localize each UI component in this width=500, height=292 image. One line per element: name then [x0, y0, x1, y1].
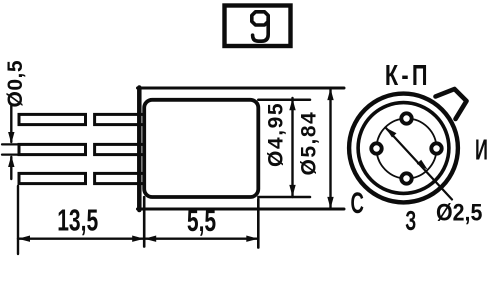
key tab — [436, 89, 467, 119]
extension line below can left edge — [143, 197, 146, 247]
lead 1 (top) segment a — [19, 114, 86, 124]
svg-text:К-П: К-П — [385, 60, 431, 92]
svg-text:Ø2,5: Ø2,5 — [436, 198, 483, 226]
lead 3 (bottom) segment a — [19, 173, 86, 183]
arrowhead down to middle lead — [8, 132, 14, 144]
digit 9 — [252, 12, 268, 41]
pin left (S) — [371, 143, 381, 153]
pin bottom (Z) — [401, 173, 411, 183]
figure number box — [225, 6, 291, 47]
arrowhead up 4,95 — [289, 99, 295, 111]
extension line below can right edge — [257, 199, 260, 248]
svg-text:Ø4,95: Ø4,95 — [265, 102, 288, 167]
flange bottom line / extension for diameter 5,84 — [138, 208, 345, 211]
arrowhead up to middle lead — [8, 155, 14, 167]
svg-text:5,5: 5,5 — [187, 203, 216, 238]
flange left edge — [137, 88, 142, 211]
diameter 0,5 dimension: extension lines — [2, 143, 20, 145]
svg-text:С: С — [350, 188, 364, 220]
arrowhead right 13,5 — [132, 236, 144, 242]
svg-text:13,5: 13,5 — [57, 203, 98, 238]
diameter 0,5 dimension line — [10, 106, 12, 142]
pin right (I) — [431, 143, 441, 153]
dimension line 13,5 / 5,5 — [18, 237, 258, 239]
can top extension for diameter 4,95 — [258, 99, 310, 102]
lead 2 (middle) segment b — [95, 144, 146, 154]
lead 3 (bottom) segment b — [95, 173, 146, 183]
svg-text:З: З — [405, 205, 416, 236]
lead 2 (middle) segment a — [19, 144, 86, 154]
rear view: middle circle — [358, 103, 449, 194]
svg-text:Ø0,5: Ø0,5 — [4, 60, 27, 108]
extension line at lead tips — [17, 186, 19, 254]
arrowhead left 5,5 — [144, 236, 156, 242]
pin top (K-P) — [401, 113, 411, 123]
svg-text:Ø5,84: Ø5,84 — [298, 111, 321, 176]
can body — [144, 100, 258, 197]
dimension line diameter 4,95 — [291, 98, 293, 197]
arrowhead left 13,5 — [18, 236, 30, 242]
arrowhead right 5,5 — [246, 236, 258, 242]
can bottom extension for diameter 4,95 — [258, 196, 310, 199]
arrowhead down-right 2,5 — [417, 160, 428, 170]
arrowhead up 5,84 — [327, 89, 333, 101]
leader line diameter 2,5 — [386, 128, 453, 200]
arrowhead down 4,95 — [289, 185, 295, 197]
pin circle — [377, 119, 437, 179]
arrowhead up-left 2,5 — [386, 128, 397, 138]
dimension line diameter 5,84 — [329, 88, 331, 209]
svg-text:И: И — [475, 134, 488, 166]
rear view: outer circle — [349, 94, 458, 203]
lead 1 (top) segment b — [95, 114, 146, 124]
flange top line / extension for diameter 5,84 — [138, 87, 345, 90]
arrowhead down 5,84 — [327, 197, 333, 209]
